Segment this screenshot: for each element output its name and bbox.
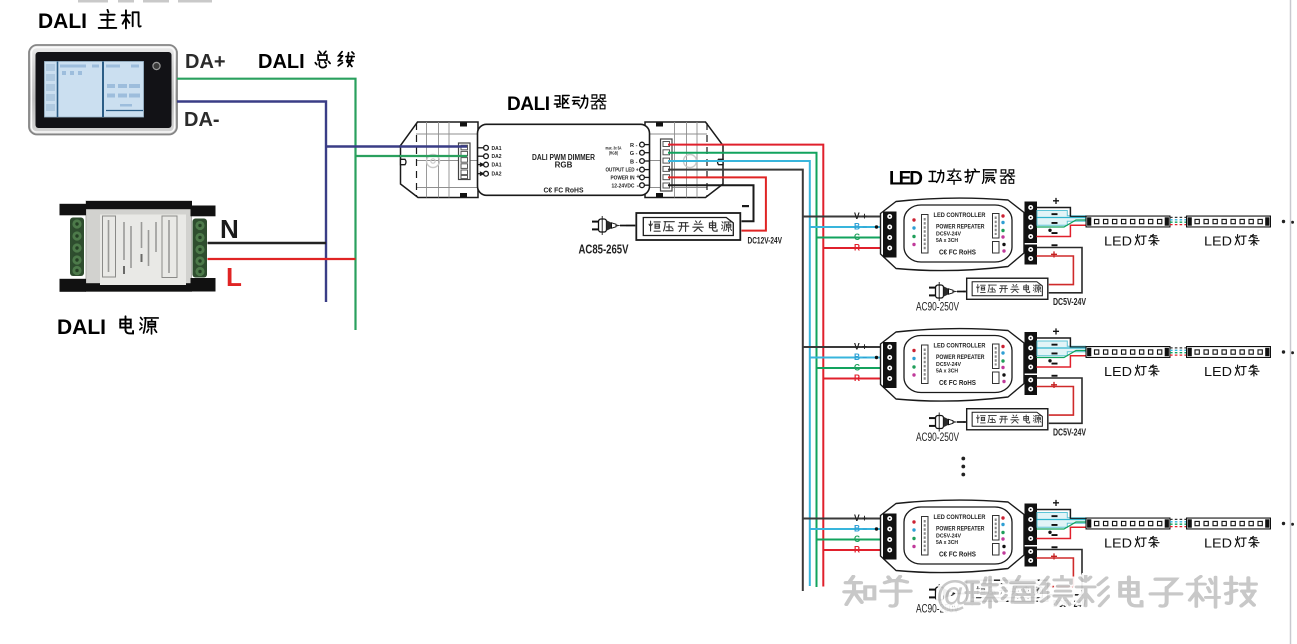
label - output 2 (repeater 3) <box>1052 524 1058 526</box>
svg-text:G –: G – <box>854 363 867 374</box>
svg-text:R –: R – <box>854 243 867 254</box>
wire output B cyan (repeater 1) <box>1037 217 1086 219</box>
title: DALI master (DALI 主机) <box>38 10 141 33</box>
wire output + black (repeater 1) <box>1037 208 1086 217</box>
wire V+ black trunk tap to repeater 2 <box>803 346 884 348</box>
page right edge line <box>1290 0 1292 644</box>
title: LED power repeater (LED功率扩展器) <box>889 169 1015 190</box>
wire DA- navy branch over cap to terminal <box>400 145 467 147</box>
LED controller / power repeater module U3 <box>881 500 1038 573</box>
svg-text:+: + <box>1052 194 1059 208</box>
continuation dots after strips (repeater 2) <box>1282 350 1285 353</box>
svg-text:R -: R - <box>630 143 638 149</box>
wire R- red trunk tap to repeater 1 <box>823 247 883 249</box>
continuation dots after strips (repeater 1) <box>1282 220 1285 223</box>
LED strip 3a (LED灯条) <box>1086 518 1170 529</box>
svg-text:LED: LED <box>1104 536 1132 551</box>
wire L red: PSU to DA+ vertical <box>208 258 356 260</box>
junction dot on B- wire (repeater 1) <box>875 225 878 228</box>
wire power - black to PSU box (repeater 1) <box>1037 248 1083 293</box>
pin DA2 (2) <box>478 154 489 159</box>
label LED灯条 strip 3a <box>1104 536 1159 551</box>
svg-text:G –: G – <box>854 534 867 545</box>
PSU box (恒压开关电源) repeater 3 <box>967 580 1048 601</box>
junction dot on B- wire (repeater 2) <box>875 356 878 359</box>
wire B- cyan trunk tap to repeater 1 <box>810 226 884 228</box>
wire plug to PSU box repeater 1 <box>963 291 966 293</box>
ribbon cable to LED strip (repeater 1) <box>1037 211 1086 226</box>
wire output R red (repeater 1) <box>1037 225 1086 236</box>
svg-text:LED: LED <box>1104 364 1132 379</box>
svg-text:+: + <box>636 174 640 180</box>
inter-strip dashed wires (repeater 1) <box>1170 217 1186 224</box>
wire R- red trunk tap to repeater 3 <box>823 549 883 551</box>
AC plug P1 <box>592 216 626 235</box>
wire POWER IN + red to PSU box <box>668 177 766 230</box>
label LED灯条 strip 3b <box>1204 536 1259 551</box>
svg-text:+: + <box>1052 496 1059 510</box>
wire DA- navy branch to driver input <box>326 145 420 147</box>
top edge watermark sliver <box>78 0 212 3</box>
pin G- <box>640 150 650 155</box>
junction dot output (repeater 2) <box>1048 359 1051 362</box>
label - output 3 (repeater 2) <box>1052 363 1058 365</box>
LED strip 2a (LED灯条) <box>1086 347 1170 358</box>
label LED灯条 strip 1b <box>1204 234 1259 249</box>
LED controller / power repeater module U1 <box>881 198 1038 271</box>
svg-text:R –: R – <box>854 373 867 384</box>
wire POWER IN - black to PSU box <box>668 185 754 221</box>
svg-text:DA2: DA2 <box>492 172 502 178</box>
svg-text:DA-: DA- <box>184 109 220 131</box>
wire G- green trunk tap to repeater 2 <box>817 367 884 369</box>
AC plug repeater 2 <box>929 413 963 432</box>
label - power (repeater 2) <box>1052 375 1058 377</box>
svg-text:OUTPUT LED +: OUTPUT LED + <box>606 168 639 174</box>
wire G- green: driver to trunk <box>668 153 817 587</box>
PSU box (恒压开关电源) repeater 1 <box>967 278 1048 299</box>
svg-text:DALI: DALI <box>38 10 87 33</box>
svg-text:LED: LED <box>1204 234 1232 249</box>
svg-text:RGB: RGB <box>555 161 573 170</box>
PSU box (恒压开关电源) repeater 2 <box>967 409 1048 430</box>
pin B- <box>640 159 650 164</box>
label LED灯条 strip 2b <box>1204 364 1259 379</box>
svg-text:DC5V-24V: DC5V-24V <box>1053 297 1086 308</box>
wire power + red to PSU box (repeater 1) <box>1037 256 1074 285</box>
svg-text:+: + <box>1052 325 1059 339</box>
junction dot output (repeater 1) <box>1048 229 1051 232</box>
wire output G green (repeater 2) <box>1037 351 1086 358</box>
wire B- cyan trunk tap to repeater 2 <box>810 357 884 359</box>
svg-text:AC85-265V: AC85-265V <box>579 243 629 257</box>
wire power + red to PSU box (repeater 2) <box>1037 387 1074 416</box>
vertical ellipsis dots (more repeaters) <box>961 457 965 477</box>
svg-text:+: + <box>1050 248 1057 262</box>
wire power + red to PSU box (repeater 3) <box>1037 558 1074 587</box>
LED strip 1b (LED灯条) <box>1187 216 1271 227</box>
svg-text:DA1: DA1 <box>492 146 502 152</box>
svg-text:C€ FC RoHS: C€ FC RoHS <box>544 188 584 195</box>
pin POWER IN - (12-24VDC) <box>640 183 650 188</box>
svg-text:B -: B - <box>630 159 638 165</box>
pin DA2 (4) <box>478 171 489 176</box>
wire V+ black trunk tap to repeater 3 <box>803 518 884 520</box>
wire plug to PSU box repeater 2 <box>963 421 966 423</box>
wire DA+ green: panel to bus corner and down <box>177 79 356 330</box>
wire output B cyan (repeater 3) <box>1037 519 1086 521</box>
svg-text:(RGB): (RGB) <box>609 151 618 156</box>
svg-text:DC12V-24V: DC12V-24V <box>748 236 783 246</box>
svg-text:AC90-250V: AC90-250V <box>916 302 959 314</box>
ribbon cable to LED strip (repeater 3) <box>1037 513 1086 528</box>
svg-text:12-24VDC: 12-24VDC <box>612 183 635 189</box>
svg-text:LED: LED <box>889 169 923 190</box>
inter-strip dashed wires (repeater 2) <box>1170 348 1186 355</box>
label - power (repeater 1) <box>1052 244 1058 246</box>
wire output + black (repeater 2) <box>1037 338 1086 347</box>
svg-text:+: + <box>1050 550 1057 564</box>
LED strip 2b (LED灯条) <box>1187 347 1271 358</box>
svg-text:G –: G – <box>854 232 867 243</box>
svg-text:AC90-250V: AC90-250V <box>916 432 959 444</box>
svg-text:LED: LED <box>1204 536 1232 551</box>
svg-text:V +: V + <box>854 513 867 524</box>
svg-text:L: L <box>226 262 242 292</box>
wire OUTPUT LED+ black: driver to trunk <box>668 170 803 591</box>
wire output R red (repeater 2) <box>1037 356 1086 367</box>
wire B- cyan: driver to trunk <box>668 161 810 586</box>
DALI power supply module PS1 <box>60 201 216 292</box>
wire output B cyan (repeater 2) <box>1037 347 1086 349</box>
svg-text:R –: R – <box>854 545 867 556</box>
AC plug repeater 3 <box>929 584 963 603</box>
wire output + black (repeater 3) <box>1037 510 1086 519</box>
label - output 3 (repeater 3) <box>1052 534 1058 536</box>
svg-text:B –: B – <box>854 352 867 363</box>
DALI PWM dimmer U2: right mounting end cap <box>645 122 723 198</box>
DALI PWM dimmer U2: left mounting end cap <box>401 122 479 198</box>
junction dot output (repeater 3) <box>1048 531 1051 534</box>
wire DA+ green branch over cap to terminal <box>400 155 467 157</box>
svg-text:DA+: DA+ <box>185 51 226 73</box>
label - output 1 (repeater 2) <box>1052 344 1058 346</box>
wire G- green trunk tap to repeater 3 <box>817 539 884 541</box>
wire R- red trunk tap to repeater 2 <box>823 378 883 380</box>
svg-text:DALI: DALI <box>57 316 106 339</box>
svg-text:DA1: DA1 <box>492 163 502 169</box>
label - output 2 (repeater 2) <box>1052 353 1058 355</box>
wire output R red (repeater 3) <box>1037 527 1086 538</box>
wire B- cyan trunk tap to repeater 3 <box>810 528 884 530</box>
label - output 1 (repeater 3) <box>1052 515 1058 517</box>
LED controller / power repeater module U2 <box>881 329 1038 402</box>
pin R- <box>640 142 650 147</box>
wire DA+ green branch to driver input <box>356 155 421 157</box>
svg-text:DC5V-24V: DC5V-24V <box>1053 428 1086 439</box>
label - output 3 (repeater 1) <box>1052 232 1058 234</box>
junction dot on B- wire (repeater 3) <box>875 527 878 530</box>
svg-text:G -: G - <box>630 151 638 157</box>
pin OUTPUT LED + <box>640 167 650 172</box>
title: DALI power (DALI 电源) <box>57 316 158 339</box>
svg-text:B –: B – <box>854 524 867 535</box>
DALI master touch panel U1 <box>29 45 177 135</box>
wire plug to PSU box 1 <box>626 225 635 227</box>
svg-text:V +: V + <box>854 211 867 222</box>
svg-text:B –: B – <box>854 222 867 233</box>
label - near black PSU wire <box>742 205 749 207</box>
LED strip 3b (LED灯条) <box>1187 518 1271 529</box>
wire output G green (repeater 3) <box>1037 522 1086 529</box>
svg-text:LED: LED <box>1104 234 1132 249</box>
continuation dots after strips (repeater 3) <box>1282 522 1285 525</box>
label - power (repeater 3) <box>1052 546 1058 548</box>
label LED灯条 strip 2a <box>1104 364 1159 379</box>
wire R- red: driver to trunk <box>668 145 823 587</box>
title: DALI driver (DALI驱动器) <box>507 94 606 115</box>
svg-text:DA2: DA2 <box>492 154 502 160</box>
wire power - black to PSU box (repeater 2) <box>1037 378 1083 423</box>
svg-text:DALI: DALI <box>258 51 305 73</box>
svg-text:POWER IN: POWER IN <box>611 176 635 182</box>
PSU box 1 (恒压开关电源) <box>636 213 740 240</box>
svg-text:LED: LED <box>1204 364 1232 379</box>
label - output 1 (repeater 1) <box>1052 213 1058 215</box>
svg-text:+: + <box>1050 378 1057 392</box>
DALI PWM dimmer U2: main body <box>478 124 650 195</box>
pin labels DA1 DA2 DA1 DA2 <box>492 146 502 178</box>
svg-text:DALI: DALI <box>507 94 550 115</box>
label - output 2 (repeater 1) <box>1052 222 1058 224</box>
pin DA1 (1) <box>478 145 489 150</box>
AC plug repeater 1 <box>929 282 963 301</box>
ribbon cable to LED strip (repeater 2) <box>1037 341 1086 356</box>
wire power - black to PSU box (repeater 3) <box>1037 550 1083 595</box>
pin POWER IN + <box>640 175 650 180</box>
svg-text:V +: V + <box>854 342 867 353</box>
LED strip 1a (LED灯条) <box>1086 216 1170 227</box>
label LED灯条 strip 1a <box>1104 234 1159 249</box>
wire DA- navy: panel to bus corner and down <box>177 102 326 303</box>
pin DA1 (3) <box>478 162 489 167</box>
wire N black: PSU to DA- vertical <box>208 242 327 244</box>
inter-strip dashed wires (repeater 3) <box>1170 519 1186 526</box>
wire V+ black trunk tap to repeater 1 <box>803 216 884 218</box>
title: DALI bus (DALI 总线) <box>258 51 354 73</box>
wire G- green trunk tap to repeater 1 <box>817 237 884 239</box>
wire plug to PSU box repeater 3 <box>963 593 966 595</box>
svg-text:N: N <box>220 214 239 244</box>
wire output G green (repeater 1) <box>1037 220 1086 227</box>
